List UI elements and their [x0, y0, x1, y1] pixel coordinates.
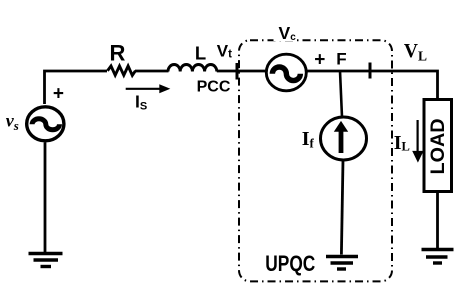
node VL tick: [369, 63, 372, 79]
source Vc: [266, 54, 306, 91]
wire main left: [45, 71, 108, 104]
ground (vs): [29, 252, 63, 255]
svg-text:LOAD: LOAD: [427, 119, 449, 175]
wire If to ground: [341, 160, 343, 255]
resistor R: [108, 66, 136, 75]
ground (If): [326, 255, 358, 258]
svg-text:R: R: [110, 41, 126, 66]
load block: [424, 100, 452, 192]
source vs: [27, 107, 64, 141]
arrow IL: [417, 120, 419, 151]
svg-text:+: +: [314, 50, 325, 71]
UPQC box: [239, 40, 392, 281]
ground (LOAD): [422, 248, 454, 251]
wire Vc to corner: [307, 71, 438, 100]
svg-text:+: +: [53, 83, 64, 104]
svg-text:F: F: [336, 50, 346, 69]
arrow Is: [126, 88, 160, 90]
wire F to If: [340, 71, 342, 117]
inductor L: [168, 65, 217, 72]
wire R to L: [135, 70, 169, 73]
wire vs bottom: [44, 143, 47, 254]
svg-text:UPQC: UPQC: [265, 251, 315, 276]
wire LOAD to ground: [436, 192, 439, 249]
label Vc: [274, 24, 298, 41]
svg-text:L: L: [195, 43, 206, 64]
node Vt tick: [236, 63, 239, 80]
current source If: [321, 117, 367, 160]
wire L to Vc: [217, 70, 266, 73]
svg-text:PCC: PCC: [197, 79, 231, 96]
